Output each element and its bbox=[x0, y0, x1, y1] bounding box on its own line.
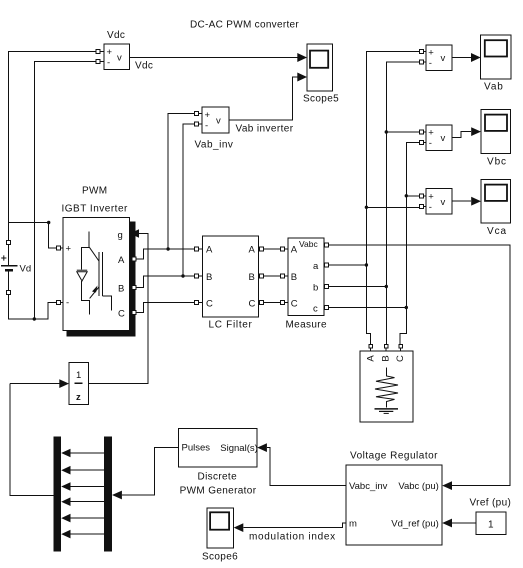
wire phase b branch to Vbc + bbox=[386, 131, 419, 133]
svg-text:IGBT Inverter: IGBT Inverter bbox=[62, 204, 129, 215]
wire Voltage Regulator Vabc_inv output to PWM generator Signal(s) bbox=[257, 443, 346, 485]
svg-text:-: - bbox=[107, 58, 110, 69]
wire Measure a output to node bbox=[329, 264, 367, 266]
svg-text:1: 1 bbox=[76, 370, 81, 381]
wire demux to mux signal 2 bbox=[61, 466, 104, 475]
svg-text:v: v bbox=[441, 133, 446, 144]
node c junction lower bbox=[405, 306, 408, 309]
svg-text:Vdc: Vdc bbox=[107, 30, 125, 41]
subsystem Voltage Regulator bbox=[346, 451, 442, 546]
subsystem PWM IGBT Inverter bbox=[56, 186, 135, 337]
svg-text:Vd: Vd bbox=[20, 264, 32, 275]
wire phase a bus bbox=[366, 52, 419, 345]
scope Vbc bbox=[481, 110, 511, 168]
wire LC filter C to Measure C bbox=[264, 302, 281, 304]
svg-text:C: C bbox=[206, 299, 213, 310]
node battery- junction bbox=[33, 317, 36, 320]
wire demux to mux signal 5 bbox=[61, 514, 104, 523]
svg-text:v: v bbox=[216, 116, 221, 127]
voltmeter Vca measurement bbox=[419, 189, 452, 215]
subsystem Discrete PWM Generator bbox=[178, 429, 257, 497]
wire Vbc meter to scope Vbc bbox=[452, 127, 481, 138]
svg-text:Vca: Vca bbox=[487, 226, 507, 237]
three-phase load block bbox=[360, 345, 413, 422]
svg-text:B: B bbox=[249, 272, 255, 283]
subsystem LC Filter bbox=[195, 236, 264, 331]
svg-text:DC-AC PWM converter: DC-AC PWM converter bbox=[190, 20, 299, 31]
svg-text:PWM Generator: PWM Generator bbox=[180, 486, 257, 497]
wire demux to mux signal 4 bbox=[61, 497, 104, 506]
svg-text:z: z bbox=[76, 392, 81, 403]
svg-text:v: v bbox=[441, 197, 446, 208]
wire inverter g input from 1/z output bbox=[89, 229, 149, 383]
scope Scope5 bbox=[303, 44, 339, 104]
constant Vref (pu) bbox=[470, 498, 512, 535]
wire Vdc meter output to Scope5 input 1 bbox=[130, 53, 308, 62]
wire PWM generator pulses to demux bbox=[112, 448, 178, 500]
voltmeter Vab measurement bbox=[419, 45, 452, 71]
wire demux to mux signal 3 bbox=[61, 482, 104, 491]
svg-text:Vab_inv: Vab_inv bbox=[195, 140, 234, 151]
svg-text:C: C bbox=[118, 309, 125, 320]
wire battery- to inverter - input bbox=[9, 295, 57, 319]
svg-text:A: A bbox=[118, 255, 125, 266]
svg-text:C: C bbox=[291, 299, 298, 310]
node b junction upper bbox=[385, 130, 388, 133]
svg-text:Scope6: Scope6 bbox=[202, 552, 238, 563]
wire Measure c output to node bbox=[329, 307, 407, 309]
scope Scope6 bbox=[202, 508, 238, 562]
svg-text:B: B bbox=[381, 355, 392, 361]
wire demux to mux signal 1 bbox=[61, 449, 104, 458]
node c junction upper bbox=[405, 194, 408, 197]
node B tap junction bbox=[181, 274, 184, 277]
node A tap junction bbox=[166, 247, 169, 250]
wire Vdc meter - input down bbox=[34, 62, 96, 320]
wire Voltage Regulator m output to Scope6 bbox=[234, 523, 346, 532]
svg-text:A: A bbox=[206, 245, 213, 256]
svg-text:v: v bbox=[117, 53, 122, 64]
svg-text:B: B bbox=[118, 284, 124, 295]
svg-text:m: m bbox=[349, 519, 357, 530]
svg-text:Measure: Measure bbox=[286, 320, 327, 331]
voltmeter Vdc bbox=[96, 30, 153, 72]
wire LC filter A to Measure A bbox=[264, 248, 281, 250]
svg-text:-: - bbox=[429, 58, 432, 69]
node a junction upper bbox=[365, 206, 368, 209]
svg-text:-: - bbox=[429, 138, 432, 149]
wire Vab_inv output to Scope5 input 2 bbox=[229, 73, 307, 121]
wire phase c bus bbox=[400, 142, 419, 344]
wire Vab meter to scope Vab bbox=[452, 53, 481, 62]
demux bar right bbox=[104, 437, 112, 552]
resistor icon inside load bbox=[375, 368, 399, 414]
subsystem Measure bbox=[280, 238, 328, 331]
wire constant to Voltage Regulator Vd_ref input bbox=[442, 519, 476, 528]
svg-text:A: A bbox=[291, 245, 298, 256]
svg-text:A: A bbox=[249, 245, 256, 256]
wire Measure Vabc output to Voltage Regulator Vabc(pu) input bbox=[329, 245, 511, 490]
wire mux output to 1/z input bbox=[10, 384, 53, 496]
wire phase B tap to Vab_inv - bbox=[183, 124, 195, 276]
wire inverter C output to LC filter C bbox=[136, 303, 195, 313]
wire inverter B output to LC filter B bbox=[136, 276, 195, 288]
svg-text:B: B bbox=[291, 272, 297, 283]
svg-text:Vdc: Vdc bbox=[135, 61, 153, 72]
svg-text:Vab inverter: Vab inverter bbox=[236, 124, 294, 135]
svg-text:b: b bbox=[313, 282, 318, 293]
svg-text:g: g bbox=[118, 230, 123, 241]
title DC-AC PWM converter bbox=[190, 20, 299, 31]
svg-text:Discrete: Discrete bbox=[198, 472, 238, 483]
node b junction lower bbox=[385, 285, 388, 288]
svg-text:+: + bbox=[66, 244, 72, 255]
svg-text:modulation index: modulation index bbox=[249, 532, 336, 543]
svg-text:A: A bbox=[365, 355, 376, 362]
label modulation index bbox=[249, 532, 336, 543]
wire phase A tap to Vab_inv + bbox=[168, 114, 195, 250]
svg-text:c: c bbox=[313, 303, 318, 314]
svg-text:PWM: PWM bbox=[82, 186, 108, 197]
voltmeter Vbc measurement bbox=[419, 125, 452, 151]
svg-text:a: a bbox=[313, 261, 319, 272]
svg-text:v: v bbox=[441, 53, 446, 64]
svg-text:Vref (pu): Vref (pu) bbox=[470, 498, 512, 509]
svg-text:-: - bbox=[66, 298, 69, 309]
scope Vab bbox=[481, 35, 511, 93]
wire demux to mux signal 6 bbox=[61, 530, 104, 539]
wire phase c branch to Vca + bbox=[406, 195, 419, 197]
svg-text:-: - bbox=[205, 121, 208, 132]
IGBT and diode icon inside inverter bbox=[77, 232, 112, 315]
wire inverter A output to LC filter A bbox=[136, 249, 195, 259]
svg-text:+: + bbox=[428, 128, 434, 139]
svg-text:+: + bbox=[107, 47, 113, 58]
scope Vca bbox=[481, 180, 511, 238]
svg-text:Vabc: Vabc bbox=[299, 239, 318, 249]
svg-text:+: + bbox=[205, 110, 211, 121]
wire Vca meter to scope Vca bbox=[452, 197, 481, 206]
svg-text:C: C bbox=[249, 299, 256, 310]
svg-text:Vd_ref (pu): Vd_ref (pu) bbox=[391, 519, 439, 530]
svg-text:-: - bbox=[429, 202, 432, 213]
svg-text:+: + bbox=[428, 192, 434, 203]
wire LC filter B to Measure B bbox=[264, 275, 281, 277]
node a junction lower bbox=[365, 263, 368, 266]
svg-text:Voltage Regulator: Voltage Regulator bbox=[350, 451, 438, 462]
svg-text:Vabc_inv: Vabc_inv bbox=[349, 481, 388, 492]
svg-text:B: B bbox=[206, 272, 212, 283]
wire phase b bus bbox=[386, 62, 419, 345]
svg-text:+: + bbox=[428, 48, 434, 59]
wire battery+ to Vdc meter + input bbox=[9, 52, 97, 241]
wire Measure b output to node bbox=[329, 286, 387, 288]
mux bar left bbox=[54, 437, 62, 552]
svg-text:Vab: Vab bbox=[484, 82, 504, 93]
wire phase a branch to Vca - bbox=[366, 206, 419, 208]
svg-text:Signal(s): Signal(s) bbox=[220, 443, 257, 454]
wire battery+ branch to inverter + input bbox=[9, 223, 57, 249]
node battery+ junction bbox=[47, 221, 50, 224]
svg-text:Pulses: Pulses bbox=[182, 443, 211, 454]
DC voltage source Vd bbox=[1, 240, 31, 294]
svg-text:Vabc (pu): Vabc (pu) bbox=[398, 481, 438, 492]
svg-text:LC Filter: LC Filter bbox=[209, 320, 253, 331]
svg-text:1: 1 bbox=[488, 520, 494, 531]
svg-text:Scope5: Scope5 bbox=[303, 94, 339, 105]
svg-text:Vbc: Vbc bbox=[487, 157, 507, 168]
voltmeter Vab_inv bbox=[195, 107, 294, 151]
unit delay 1/z bbox=[10, 363, 89, 405]
svg-text:C: C bbox=[395, 355, 406, 362]
